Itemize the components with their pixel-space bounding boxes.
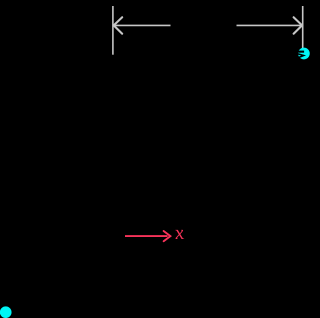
x-axis arrowhead (red) bbox=[164, 231, 171, 241]
x-axis label "x" (red italic) bbox=[172, 222, 186, 244]
dimension extension line right bbox=[302, 6, 304, 55]
point 1 (cyan, bottom left) bbox=[0, 306, 12, 318]
dimension arrowhead right bbox=[294, 17, 303, 33]
dimension arrowhead left bbox=[114, 17, 123, 33]
dimension extension line left bbox=[112, 6, 114, 55]
dimension line left segment bbox=[114, 24, 171, 26]
point 2 (cyan, top right) bbox=[298, 48, 310, 60]
point 2 label marks (black glyph over dot) bbox=[295, 51, 305, 59]
dimension line right segment bbox=[237, 24, 303, 26]
x-axis arrow (red) bbox=[125, 235, 168, 237]
